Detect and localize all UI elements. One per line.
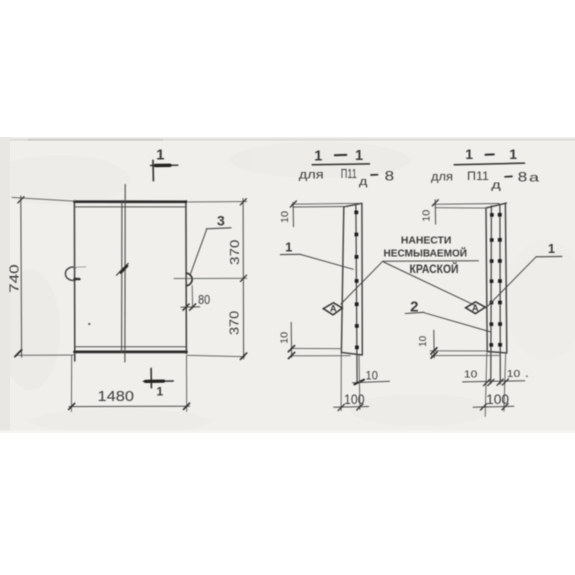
dim 1480: extension line right [186,356,188,412]
dim 370: tick middle [240,275,246,281]
section body right edge [361,203,363,354]
section body top edge [344,203,362,207]
svg-text:а: а [529,171,539,185]
svg-text:1: 1 [509,146,517,162]
svg-text:740: 740 [6,264,21,293]
svg-text:370: 370 [227,240,242,265]
svg-text:д: д [491,179,501,191]
svg-text:д: д [359,176,368,188]
section body bottom edge (right view) [487,352,507,353]
section body left edge (right view) [486,208,487,352]
dim 370: extension bottom-right [187,355,245,356]
svg-text:1: 1 [157,385,164,399]
svg-text:10: 10 [366,369,379,383]
dim 100 (middle section) [340,353,342,411]
rebar dots [354,211,358,350]
section body top edge (right view) [486,203,506,208]
rebar dots (right view) [489,213,502,347]
vertical centerline (double) [122,185,126,363]
dim 1480: dimension line [69,405,190,407]
dim 1480: tick right [184,403,190,409]
svg-text:1: 1 [548,242,555,256]
dim 80: extension from hole bottom [191,286,193,309]
diamond mark A (middle) [323,303,342,315]
dim 740: dimension line [20,196,23,357]
section body right edge (right view) [505,203,506,352]
diamond mark A (right) [466,302,486,314]
rebar line [356,205,357,382]
dim 1480: tick left [69,403,75,409]
leader of label 1 (right) [486,257,536,308]
dim 10 top (right section) [433,203,499,206]
leader of label 3 [191,230,207,274]
svg-text:А: А [472,303,479,313]
svg-text:8: 8 [385,168,395,184]
dot speck [88,323,90,325]
svg-text:3: 3 [217,212,225,228]
rebar line 2 (right view) [499,205,501,384]
svg-text:10: 10 [279,332,291,344]
svg-text:НАНЕСТИ: НАНЕСТИ [401,234,452,246]
panel outline right edge [185,201,188,354]
dim 370/370: dimension line right [242,199,245,360]
panel outline left edge [73,201,75,361]
svg-text:1: 1 [156,147,164,164]
note leader to left diamond [341,261,383,304]
dim 10 bottom-left (right section) [430,350,487,352]
note underline leader [383,260,479,262]
svg-text:для: для [431,172,453,184]
dim 1480: extension line left [70,356,72,412]
svg-text:1480: 1480 [98,389,135,405]
svg-text:80: 80 [198,293,210,307]
svg-text:10: 10 [279,211,291,223]
svg-text:1: 1 [314,148,322,164]
dim 10 bottom-left (middle section) [291,347,341,349]
svg-text:КРАСКОЙ: КРАСКОЙ [410,261,459,276]
svg-text:1: 1 [285,239,292,254]
svg-text:10: 10 [417,336,429,347]
dim 100 (right section) [473,406,514,407]
dim 740: tick bottom [15,350,22,357]
dim 80: tick [183,304,189,310]
panel bottom edge (double line) [75,346,187,348]
svg-text:10: 10 [464,368,478,380]
dim 740: extension line bottom-left [17,354,76,356]
dim 370: tick top [240,199,246,205]
dim 10 bottom-right (middle section) [353,381,390,383]
svg-text:1: 1 [465,146,473,162]
svg-text:100: 100 [486,392,509,407]
section mark 1 (top) [152,160,154,180]
dim 10|10 line [463,381,525,382]
section body bottom edge [341,352,362,355]
svg-text:НЕСМЫВАЕМОЙ: НЕСМЫВАЕМОЙ [384,246,468,259]
section body left edge [341,207,343,353]
dim 740: tick top [18,197,24,203]
bottom dims (right section): face extensions [485,353,487,416]
dim 740: extension line top-left [12,197,75,201]
hole semicircle right edge [187,273,192,285]
dim 370: extension top-right [189,201,247,203]
svg-text:1: 1 [355,148,363,164]
dim 80: dimension line [181,306,200,308]
svg-text:10: 10 [421,210,433,222]
dim 370: tick bottom [240,353,246,359]
svg-text:10: 10 [507,368,521,380]
svg-text:100: 100 [344,392,365,407]
svg-text:для: для [299,168,324,182]
svg-text:8: 8 [518,169,528,184]
panel top edge (double line) [74,200,186,203]
note leader to right diamond [384,262,476,306]
svg-text:П11: П11 [341,168,357,182]
rebar line 1 (right view) [490,206,493,384]
svg-text:370: 370 [227,311,242,335]
svg-text:П11: П11 [467,169,489,183]
dim 370: extension middle from hole [174,277,247,279]
svg-text:А: А [330,304,337,314]
lifting loop left edge [65,267,75,280]
centerline break mark [117,263,129,275]
leader of label 1 [300,254,353,269]
section mark 1 (bottom) [150,368,152,387]
ticks 10|10 [484,380,490,386]
small speck after right 10 [526,375,528,377]
leader of label 2 [424,313,491,332]
dim 10 top (middle section) [292,202,362,205]
